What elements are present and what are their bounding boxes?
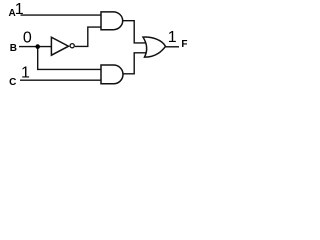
svg-text:1: 1 (168, 29, 177, 46)
svg-text:B: B (10, 43, 17, 54)
svg-text:1: 1 (15, 1, 24, 18)
svg-text:F: F (181, 39, 187, 50)
svg-text:C: C (9, 77, 16, 88)
svg-text:0: 0 (23, 29, 32, 46)
svg-text:1: 1 (21, 65, 30, 82)
